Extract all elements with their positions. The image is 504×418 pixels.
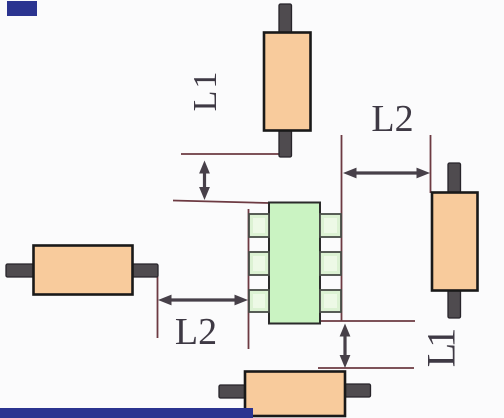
pin 1 (U1 left top) <box>249 214 269 237</box>
svg-text:L2: L2 <box>371 98 413 140</box>
resistor R1 (top, vertical chip component) <box>264 4 311 157</box>
wire vertical line left of U1 pins <box>248 209 250 349</box>
pin 4 (U1 right top) <box>320 214 341 237</box>
resistor R3 (left, horizontal chip component) <box>6 246 158 295</box>
resistor R2 (right, vertical chip component) <box>432 163 478 318</box>
blue border bar top-left <box>7 1 37 16</box>
wire dimension line C (below U1 right pins) <box>320 320 415 322</box>
wire dimension line D (above R4) <box>318 367 414 369</box>
wire vertical line right of U1 <box>341 135 343 321</box>
pin 5 (U1 right middle) <box>320 252 341 275</box>
dimension arrow L1 bottom-right (vertical double arrow) <box>340 324 351 369</box>
pin 6 (U1 right bottom) <box>320 290 341 312</box>
IC U1 body <box>269 203 320 324</box>
svg-text:L2: L2 <box>175 311 217 353</box>
wire vertical line at R2 left edge <box>430 135 432 193</box>
dimension arrow L1 top (vertical double arrow) <box>199 161 210 201</box>
dimension arrow L2 top-right (horizontal double arrow) <box>343 168 430 179</box>
svg-text:L1: L1 <box>187 70 224 112</box>
wire dimension line A (top, under R1) <box>181 153 280 155</box>
pin 2 (U1 left middle) <box>249 252 269 275</box>
blue border bar bottom <box>0 408 253 418</box>
pin 3 (U1 left bottom) <box>249 290 269 312</box>
dimension arrow L2 bottom-left (horizontal double arrow) <box>158 295 248 306</box>
wire dimension line B (above U1 top edge) <box>173 201 269 204</box>
resistor R4 (bottom, horizontal chip component) <box>219 372 371 417</box>
svg-text:L1: L1 <box>419 330 464 367</box>
wire vertical line at R3 right lead <box>157 276 159 338</box>
